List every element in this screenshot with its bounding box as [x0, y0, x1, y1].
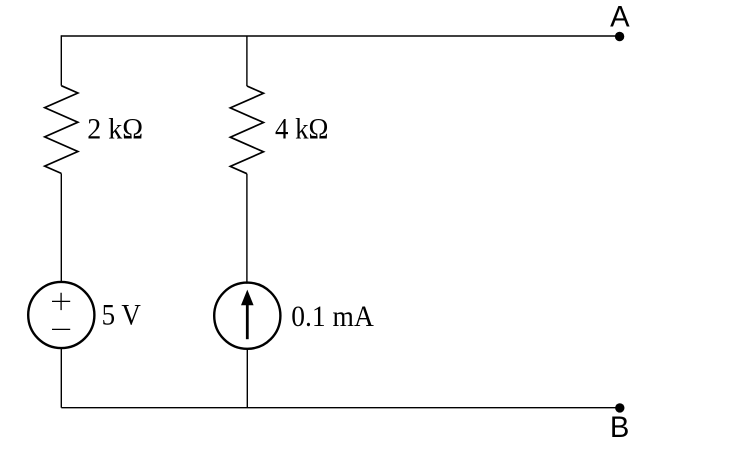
svg-text:0.1 mA: 0.1 mA	[291, 300, 374, 333]
voltage source V1 circle	[28, 282, 94, 348]
wire middle branch top segment	[246, 36, 248, 86]
wire bottom rail	[61, 407, 619, 409]
current source I1 circle	[214, 283, 280, 349]
current source arrow	[241, 290, 254, 340]
label 4 kOhm	[275, 113, 329, 146]
label 0.1 mA	[291, 300, 374, 333]
resistor R2 4kohm	[230, 86, 263, 174]
wire left branch top segment	[60, 35, 62, 85]
label 2 kOhm	[87, 112, 143, 145]
wire left branch bottom segment	[60, 348, 62, 408]
node B terminal dot	[615, 403, 624, 412]
label A	[610, 2, 630, 34]
svg-text:B: B	[610, 412, 629, 444]
svg-text:A: A	[610, 2, 630, 34]
voltage source plus sign	[52, 293, 70, 310]
voltage source minus sign	[52, 328, 70, 330]
wire left branch middle segment	[60, 173, 62, 282]
resistor R1 2kohm	[45, 86, 78, 174]
svg-text:4 kΩ: 4 kΩ	[275, 113, 329, 146]
wire top rail	[61, 35, 619, 37]
label B	[610, 412, 629, 444]
wire middle branch middle segment	[246, 174, 248, 284]
svg-text:5 V: 5 V	[102, 299, 141, 332]
node A terminal dot	[615, 32, 624, 41]
label 5 V	[102, 299, 141, 332]
wire middle branch bottom segment	[246, 349, 248, 408]
svg-text:2 kΩ: 2 kΩ	[87, 112, 143, 145]
